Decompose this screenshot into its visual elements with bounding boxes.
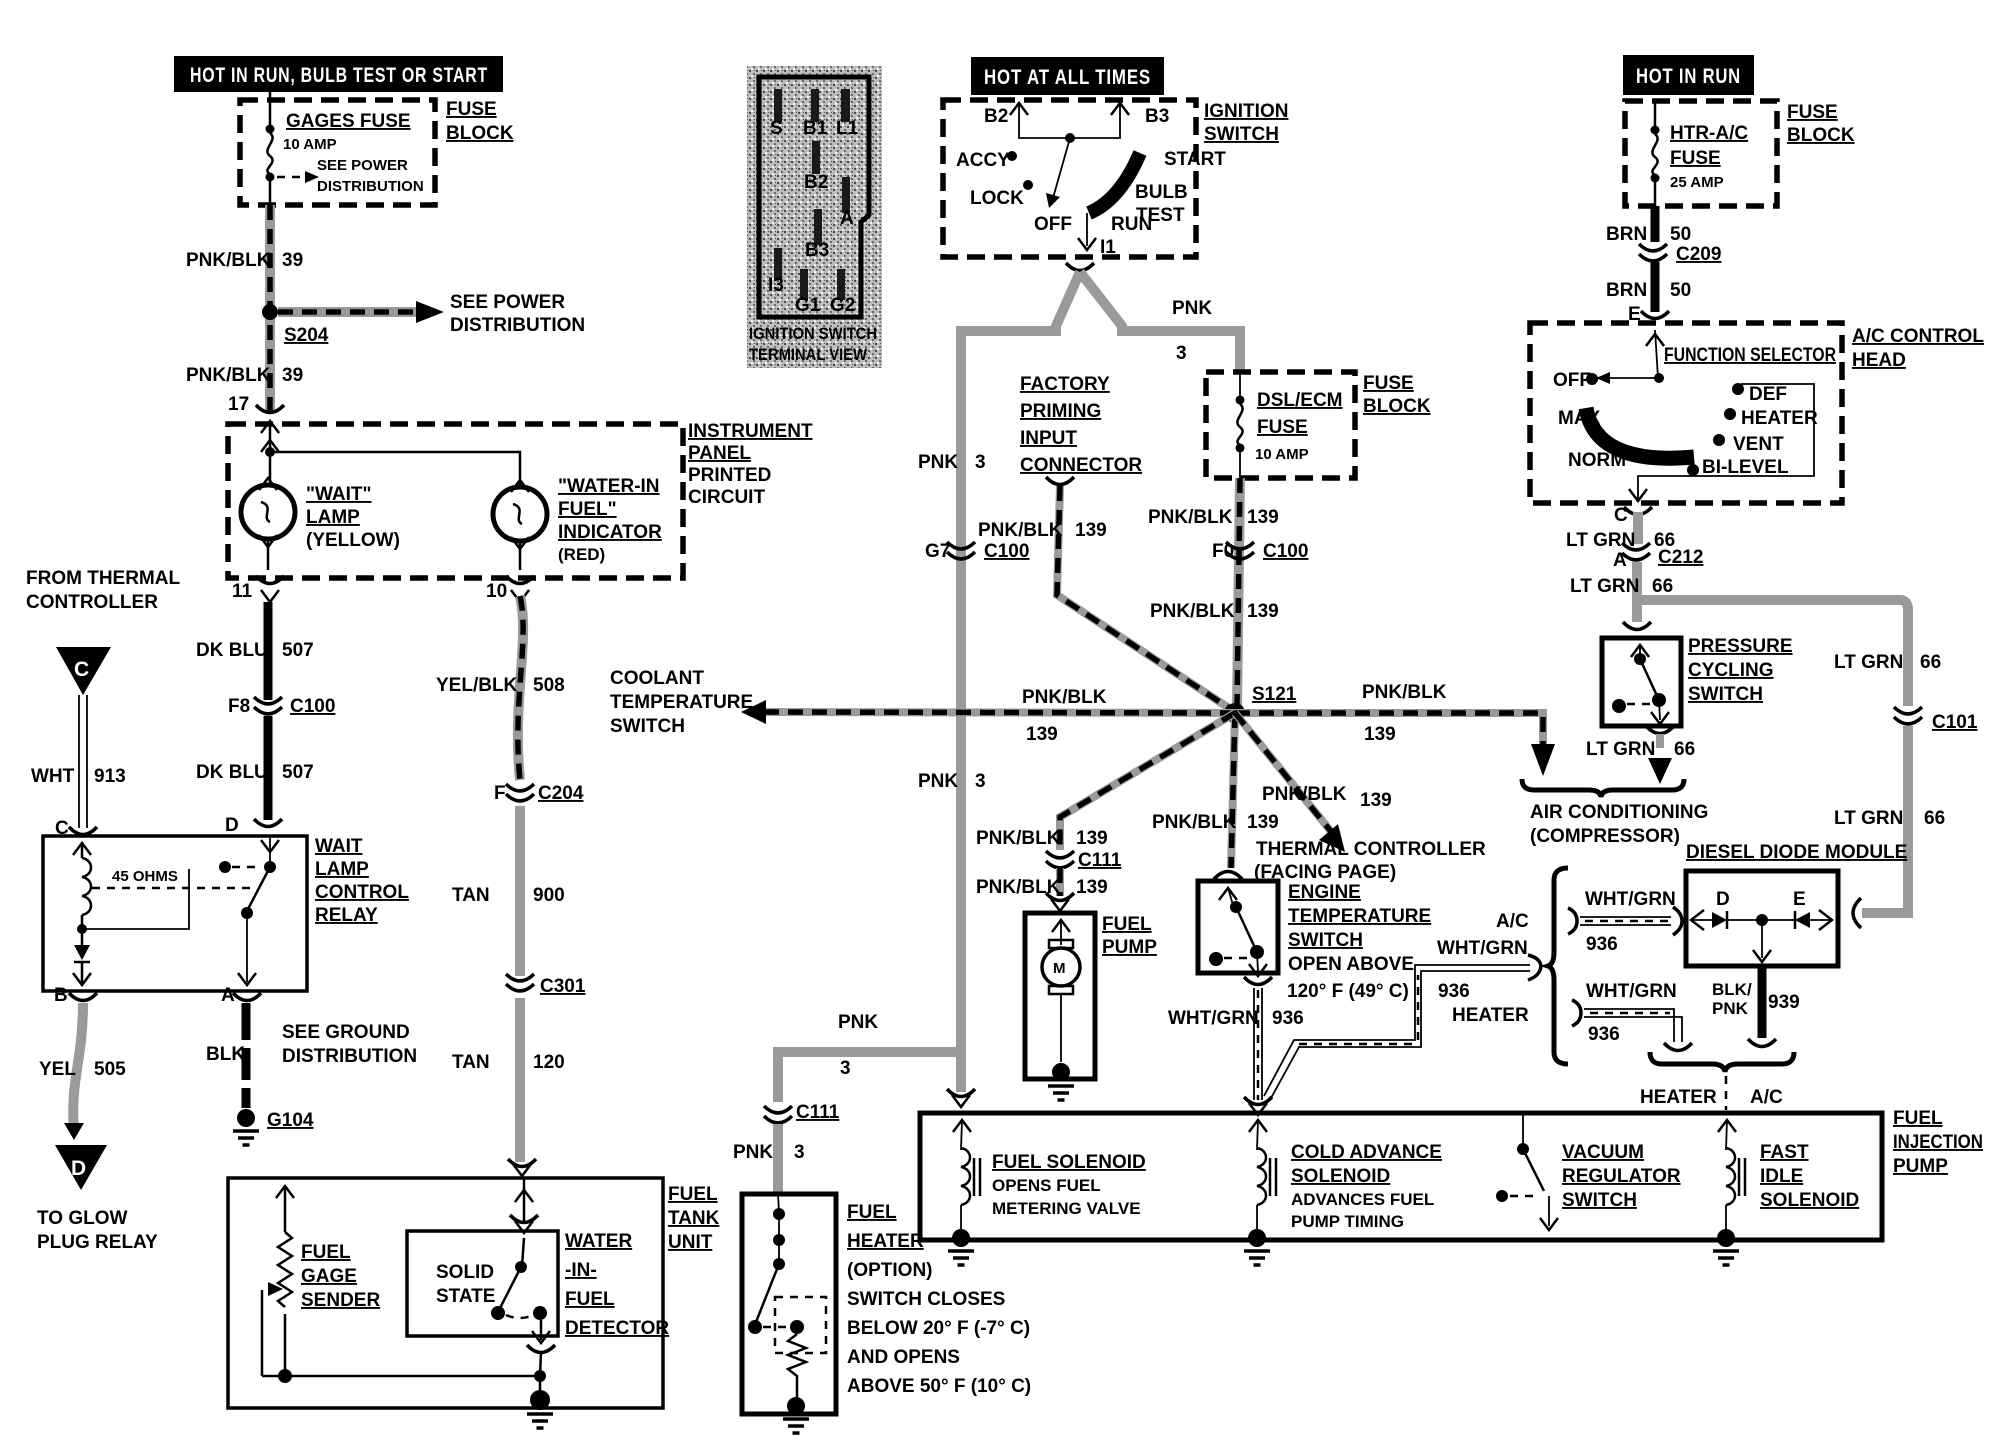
svg-text:WHT/GRN: WHT/GRN — [1586, 981, 1677, 1002]
svg-text:PUMP: PUMP — [1102, 937, 1157, 958]
svg-text:G2: G2 — [830, 295, 855, 316]
svg-text:SWITCH: SWITCH — [610, 716, 685, 737]
svg-text:INJECTION: INJECTION — [1893, 1132, 1983, 1153]
svg-text:PANEL: PANEL — [688, 443, 751, 464]
svg-text:PNK/BLK: PNK/BLK — [186, 250, 271, 271]
svg-text:25 AMP: 25 AMP — [1670, 174, 1724, 191]
svg-text:66: 66 — [1920, 652, 1941, 673]
svg-text:S204: S204 — [284, 325, 329, 346]
svg-text:LAMP: LAMP — [315, 859, 369, 880]
svg-text:PLUG RELAY: PLUG RELAY — [37, 1232, 158, 1253]
svg-text:-IN-: -IN- — [565, 1260, 597, 1281]
svg-text:LOCK: LOCK — [970, 188, 1024, 209]
svg-text:PUMP TIMING: PUMP TIMING — [1291, 1212, 1404, 1231]
svg-text:45 OHMS: 45 OHMS — [112, 868, 178, 885]
svg-text:3: 3 — [794, 1142, 805, 1163]
svg-text:FROM THERMAL: FROM THERMAL — [26, 568, 180, 589]
svg-text:BRN: BRN — [1606, 280, 1647, 301]
svg-text:FACTORY: FACTORY — [1020, 374, 1110, 395]
svg-text:FUEL SOLENOID: FUEL SOLENOID — [992, 1152, 1146, 1173]
svg-text:HEATER: HEATER — [1640, 1087, 1717, 1108]
svg-text:L1: L1 — [836, 118, 859, 139]
svg-text:PNK/BLK: PNK/BLK — [976, 828, 1061, 849]
svg-text:TAN: TAN — [452, 1052, 490, 1073]
svg-text:CONNECTOR: CONNECTOR — [1020, 455, 1142, 476]
svg-text:CONTROL: CONTROL — [315, 882, 409, 903]
svg-text:"WAIT": "WAIT" — [306, 484, 372, 505]
svg-text:PNK/BLK: PNK/BLK — [978, 520, 1063, 541]
svg-text:SOLID: SOLID — [436, 1262, 494, 1283]
svg-text:939: 939 — [1768, 992, 1800, 1013]
svg-text:FUEL": FUEL" — [558, 499, 617, 520]
svg-text:INDICATOR: INDICATOR — [558, 522, 662, 543]
svg-text:HEAD: HEAD — [1852, 350, 1906, 371]
svg-text:PNK: PNK — [733, 1142, 773, 1163]
svg-text:VENT: VENT — [1733, 434, 1784, 455]
svg-text:PRINTED: PRINTED — [688, 465, 771, 486]
svg-text:SEE POWER: SEE POWER — [450, 292, 565, 313]
svg-text:SOLENOID: SOLENOID — [1291, 1166, 1390, 1187]
svg-text:17: 17 — [228, 394, 249, 415]
svg-text:BELOW 20° F (-7° C): BELOW 20° F (-7° C) — [847, 1318, 1030, 1339]
svg-text:INPUT: INPUT — [1020, 428, 1077, 449]
svg-text:AND OPENS: AND OPENS — [847, 1347, 960, 1368]
svg-text:HOT IN RUN, BULB TEST OR STAR: HOT IN RUN, BULB TEST OR START — [190, 64, 488, 87]
svg-text:SWITCH: SWITCH — [1204, 124, 1279, 145]
svg-text:B2: B2 — [804, 172, 828, 193]
svg-text:FUEL: FUEL — [1102, 914, 1152, 935]
svg-text:OPENS FUEL: OPENS FUEL — [992, 1176, 1101, 1195]
svg-text:METERING VALVE: METERING VALVE — [992, 1199, 1141, 1218]
svg-text:LT GRN: LT GRN — [1570, 576, 1639, 597]
svg-text:120° F (49° C): 120° F (49° C) — [1287, 981, 1409, 1002]
svg-text:(OPTION): (OPTION) — [847, 1260, 933, 1281]
svg-text:M: M — [1053, 960, 1066, 977]
svg-text:OFF: OFF — [1034, 214, 1072, 235]
svg-text:507: 507 — [282, 762, 314, 783]
svg-text:(RED): (RED) — [558, 545, 605, 564]
svg-text:TEMPERATURE: TEMPERATURE — [1288, 906, 1431, 927]
svg-text:139: 139 — [1026, 724, 1058, 745]
svg-text:PNK/BLK: PNK/BLK — [186, 365, 271, 386]
svg-text:A: A — [1613, 550, 1627, 571]
svg-text:SOLENOID: SOLENOID — [1760, 1190, 1859, 1211]
svg-text:PUMP: PUMP — [1893, 1156, 1948, 1177]
svg-text:IGNITION SWITCH: IGNITION SWITCH — [749, 324, 877, 343]
svg-text:SEE GROUND: SEE GROUND — [282, 1022, 410, 1043]
svg-text:"WATER-IN: "WATER-IN — [558, 476, 660, 497]
svg-text:WHT: WHT — [31, 766, 75, 787]
svg-text:39: 39 — [282, 365, 303, 386]
svg-text:INSTRUMENT: INSTRUMENT — [688, 421, 813, 442]
svg-text:936: 936 — [1438, 981, 1470, 1002]
svg-text:3: 3 — [840, 1058, 851, 1079]
svg-text:PNK/BLK: PNK/BLK — [1152, 812, 1237, 833]
svg-text:SENDER: SENDER — [301, 1290, 380, 1311]
svg-text:FUSE: FUSE — [1257, 417, 1308, 438]
svg-text:PNK: PNK — [918, 452, 958, 473]
svg-text:PNK/BLK: PNK/BLK — [1022, 687, 1107, 708]
svg-text:TO GLOW: TO GLOW — [37, 1208, 127, 1229]
svg-text:DISTRIBUTION: DISTRIBUTION — [282, 1046, 417, 1067]
svg-text:DISTRIBUTION: DISTRIBUTION — [450, 315, 585, 336]
svg-text:(COMPRESSOR): (COMPRESSOR) — [1530, 826, 1680, 847]
svg-text:936: 936 — [1272, 1008, 1304, 1029]
svg-text:F: F — [494, 783, 506, 804]
svg-text:B: B — [54, 985, 68, 1006]
svg-text:WHT/GRN: WHT/GRN — [1437, 938, 1528, 959]
svg-text:REGULATOR: REGULATOR — [1562, 1166, 1681, 1187]
svg-text:CONTROLLER: CONTROLLER — [26, 592, 158, 613]
svg-text:SEE POWER: SEE POWER — [317, 157, 408, 174]
svg-text:LT GRN: LT GRN — [1834, 808, 1903, 829]
svg-text:THERMAL CONTROLLER: THERMAL CONTROLLER — [1256, 839, 1486, 860]
svg-text:WAIT: WAIT — [315, 836, 363, 857]
svg-text:BLOCK: BLOCK — [1787, 125, 1855, 146]
svg-text:139: 139 — [1247, 812, 1279, 833]
svg-text:10: 10 — [486, 581, 507, 602]
svg-text:LT GRN: LT GRN — [1834, 652, 1903, 673]
svg-text:UNIT: UNIT — [668, 1232, 713, 1253]
svg-text:LT GRN: LT GRN — [1566, 530, 1635, 551]
svg-text:120: 120 — [533, 1052, 565, 1073]
svg-text:LAMP: LAMP — [306, 507, 360, 528]
svg-text:C100: C100 — [1263, 541, 1308, 562]
svg-text:39: 39 — [282, 250, 303, 271]
svg-text:C101: C101 — [1932, 712, 1978, 733]
svg-text:PNK: PNK — [1712, 999, 1749, 1018]
svg-text:TAN: TAN — [452, 885, 490, 906]
svg-text:11: 11 — [232, 581, 253, 602]
svg-text:139: 139 — [1075, 520, 1107, 541]
svg-text:139: 139 — [1364, 724, 1396, 745]
svg-text:A/C: A/C — [1750, 1087, 1783, 1108]
svg-text:HEATER: HEATER — [1452, 1005, 1529, 1026]
svg-text:66: 66 — [1924, 808, 1945, 829]
svg-text:BI-LEVEL: BI-LEVEL — [1702, 457, 1789, 478]
svg-text:3: 3 — [975, 771, 986, 792]
svg-text:TEMPERATURE: TEMPERATURE — [610, 692, 753, 713]
svg-text:B1: B1 — [803, 118, 828, 139]
svg-text:FUSE: FUSE — [1363, 373, 1414, 394]
svg-text:900: 900 — [533, 885, 565, 906]
svg-text:50: 50 — [1670, 224, 1691, 245]
svg-text:139: 139 — [1076, 828, 1108, 849]
svg-text:ENGINE: ENGINE — [1288, 882, 1361, 903]
svg-text:D: D — [71, 1157, 87, 1180]
svg-text:3: 3 — [1176, 343, 1187, 364]
svg-text:507: 507 — [282, 640, 314, 661]
svg-text:VACUUM: VACUUM — [1562, 1142, 1644, 1163]
svg-text:DK BLU: DK BLU — [196, 762, 268, 783]
svg-text:PNK/BLK: PNK/BLK — [1148, 507, 1233, 528]
svg-text:FUEL: FUEL — [668, 1184, 718, 1205]
svg-text:66: 66 — [1652, 576, 1673, 597]
svg-text:PRESSURE: PRESSURE — [1688, 636, 1793, 657]
svg-text:B2: B2 — [984, 106, 1008, 127]
svg-text:A: A — [840, 208, 854, 229]
svg-text:I1: I1 — [1100, 237, 1116, 258]
svg-text:936: 936 — [1588, 1024, 1620, 1045]
svg-text:FUSE: FUSE — [1787, 102, 1838, 123]
svg-text:10 AMP: 10 AMP — [1255, 446, 1309, 463]
svg-text:BLK/: BLK/ — [1712, 980, 1752, 999]
svg-text:FUSE: FUSE — [1670, 148, 1721, 169]
svg-text:F8: F8 — [228, 696, 250, 717]
svg-text:DSL/ECM: DSL/ECM — [1257, 390, 1343, 411]
svg-text:FUEL: FUEL — [847, 1202, 897, 1223]
svg-text:PNK/BLK: PNK/BLK — [1150, 601, 1235, 622]
svg-text:B3: B3 — [1145, 106, 1169, 127]
svg-text:DK BLU: DK BLU — [196, 640, 268, 661]
svg-text:RELAY: RELAY — [315, 905, 378, 926]
svg-text:S121: S121 — [1252, 684, 1297, 705]
svg-text:C111: C111 — [1078, 850, 1122, 871]
svg-text:139: 139 — [1247, 601, 1279, 622]
svg-text:FUNCTION SELECTOR: FUNCTION SELECTOR — [1664, 345, 1836, 366]
svg-text:139: 139 — [1360, 790, 1392, 811]
svg-text:OFF: OFF — [1553, 370, 1591, 391]
svg-text:B3: B3 — [805, 240, 829, 261]
svg-text:GAGES FUSE: GAGES FUSE — [286, 111, 411, 132]
svg-text:IGNITION: IGNITION — [1204, 101, 1288, 122]
svg-text:G7: G7 — [925, 541, 950, 562]
svg-text:FUSE: FUSE — [446, 99, 497, 120]
svg-text:BLOCK: BLOCK — [446, 123, 514, 144]
svg-text:A/C CONTROL: A/C CONTROL — [1852, 326, 1984, 347]
svg-text:DIESEL DIODE MODULE: DIESEL DIODE MODULE — [1686, 842, 1907, 863]
svg-text:ABOVE 50° F (10° C): ABOVE 50° F (10° C) — [847, 1376, 1031, 1397]
svg-text:ACCY: ACCY — [956, 150, 1010, 171]
svg-text:PNK: PNK — [1172, 298, 1212, 319]
svg-text:A/C: A/C — [1496, 911, 1529, 932]
svg-text:HTR-A/C: HTR-A/C — [1670, 123, 1748, 144]
svg-text:TEST: TEST — [1136, 205, 1185, 226]
svg-text:START: START — [1164, 149, 1226, 170]
svg-text:PNK: PNK — [838, 1012, 878, 1033]
svg-text:3: 3 — [975, 452, 986, 473]
svg-text:FUEL: FUEL — [301, 1242, 351, 1263]
svg-text:BULB: BULB — [1135, 182, 1188, 203]
svg-text:C301: C301 — [540, 976, 586, 997]
svg-text:LT GRN: LT GRN — [1586, 739, 1655, 760]
svg-text:BLOCK: BLOCK — [1363, 396, 1431, 417]
svg-text:139: 139 — [1076, 877, 1108, 898]
svg-text:HEATER: HEATER — [847, 1231, 924, 1252]
svg-text:D: D — [225, 815, 239, 836]
svg-text:PRIMING: PRIMING — [1020, 401, 1101, 422]
svg-text:505: 505 — [94, 1059, 126, 1080]
svg-text:DETECTOR: DETECTOR — [565, 1318, 669, 1339]
svg-text:BRN: BRN — [1606, 224, 1647, 245]
svg-text:S: S — [770, 118, 783, 139]
svg-text:SWITCH: SWITCH — [1688, 684, 1763, 705]
svg-text:508: 508 — [533, 675, 565, 696]
svg-text:C204: C204 — [538, 783, 584, 804]
svg-text:WHT/GRN: WHT/GRN — [1168, 1008, 1259, 1029]
svg-text:WHT/GRN: WHT/GRN — [1585, 889, 1676, 910]
svg-text:GAGE: GAGE — [301, 1266, 357, 1287]
svg-text:SWITCH: SWITCH — [1288, 930, 1363, 951]
svg-text:10 AMP: 10 AMP — [283, 136, 337, 153]
svg-text:ADVANCES FUEL: ADVANCES FUEL — [1291, 1190, 1434, 1209]
svg-text:(YELLOW): (YELLOW) — [306, 530, 400, 551]
svg-text:YEL/BLK: YEL/BLK — [436, 675, 518, 696]
svg-text:C: C — [74, 658, 90, 681]
svg-text:COLD ADVANCE: COLD ADVANCE — [1291, 1142, 1442, 1163]
svg-text:WATER: WATER — [565, 1231, 632, 1252]
svg-text:HOT AT ALL TIMES: HOT AT ALL TIMES — [984, 66, 1151, 89]
svg-text:A: A — [221, 985, 235, 1006]
svg-text:C111: C111 — [796, 1102, 840, 1123]
svg-text:66: 66 — [1674, 739, 1695, 760]
svg-text:DISTRIBUTION: DISTRIBUTION — [317, 178, 424, 195]
svg-text:IDLE: IDLE — [1760, 1166, 1803, 1187]
svg-text:D: D — [1716, 889, 1730, 910]
svg-text:TANK: TANK — [668, 1208, 720, 1229]
svg-text:PNK: PNK — [918, 771, 958, 792]
svg-text:FUEL: FUEL — [1893, 1108, 1943, 1129]
svg-text:C209: C209 — [1676, 244, 1721, 265]
svg-text:G104: G104 — [267, 1110, 314, 1131]
svg-text:DEF: DEF — [1749, 384, 1787, 405]
svg-text:CIRCUIT: CIRCUIT — [688, 487, 765, 508]
svg-text:C212: C212 — [1658, 547, 1703, 568]
svg-text:PNK/BLK: PNK/BLK — [1362, 682, 1447, 703]
svg-text:913: 913 — [94, 766, 126, 787]
svg-text:I3: I3 — [768, 275, 784, 296]
svg-text:HEATER: HEATER — [1741, 408, 1818, 429]
svg-text:AIR CONDITIONING: AIR CONDITIONING — [1530, 802, 1708, 823]
svg-text:FUEL: FUEL — [565, 1289, 615, 1310]
svg-text:FAST: FAST — [1760, 1142, 1809, 1163]
svg-text:C100: C100 — [984, 541, 1029, 562]
svg-text:BLK: BLK — [206, 1044, 245, 1065]
svg-text:STATE: STATE — [436, 1286, 495, 1307]
svg-text:SWITCH CLOSES: SWITCH CLOSES — [847, 1289, 1005, 1310]
svg-text:OPEN ABOVE: OPEN ABOVE — [1288, 954, 1414, 975]
svg-text:CYCLING: CYCLING — [1688, 660, 1774, 681]
svg-text:E: E — [1793, 889, 1806, 910]
svg-text:YEL: YEL — [39, 1059, 76, 1080]
svg-text:936: 936 — [1586, 934, 1618, 955]
svg-text:PNK/BLK: PNK/BLK — [1262, 784, 1347, 805]
svg-text:COOLANT: COOLANT — [610, 668, 704, 689]
svg-text:139: 139 — [1247, 507, 1279, 528]
svg-text:TERMINAL VIEW: TERMINAL VIEW — [749, 345, 868, 364]
svg-text:SWITCH: SWITCH — [1562, 1190, 1637, 1211]
svg-text:HOT IN RUN: HOT IN RUN — [1636, 65, 1741, 88]
svg-text:C100: C100 — [290, 696, 335, 717]
svg-text:G1: G1 — [795, 295, 821, 316]
svg-text:50: 50 — [1670, 280, 1691, 301]
